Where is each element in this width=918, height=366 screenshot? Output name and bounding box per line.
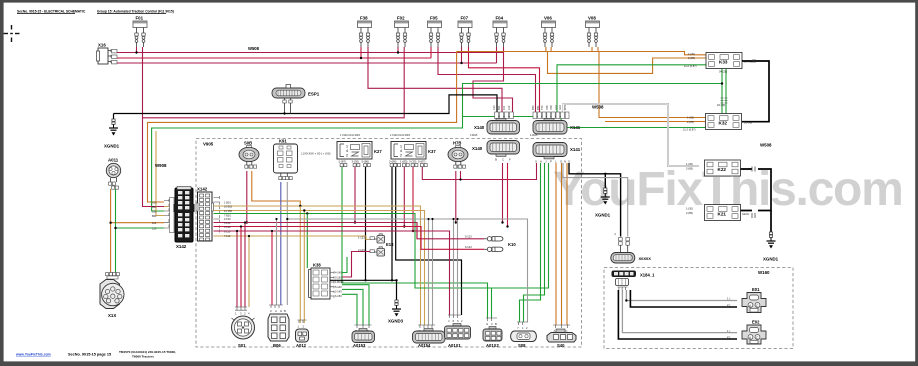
svg-text:2-(85): 2-(85) — [686, 211, 693, 215]
wire K38 black to XGND3 — [330, 280, 397, 300]
wire orange jog to K33 pin2 — [548, 52, 707, 74]
svg-text:E01: E01 — [752, 287, 760, 292]
svg-text:X184_1: X184_1 — [640, 273, 655, 278]
wire X141b green1 to S08 — [520, 163, 541, 322]
wire F07 right leg to X141 pin B — [469, 47, 540, 112]
node ESP1-gnd — [283, 112, 285, 114]
connector A0154 — [413, 325, 446, 348]
svg-text:1: 1 — [400, 145, 402, 149]
svg-text:1-(30): 1-(30) — [686, 207, 693, 211]
connector X16 — [97, 43, 118, 65]
relay K32 — [683, 114, 752, 132]
svg-text:X141: X141 — [570, 125, 581, 130]
svg-text:H: H — [280, 309, 282, 313]
node B06 gray — [275, 218, 277, 220]
svg-text:T50: T50 — [540, 105, 544, 110]
wire X141b green2 to S08 — [524, 163, 545, 322]
K27 pin labels — [339, 160, 370, 164]
connector X142 right half — [196, 187, 220, 242]
connector X140 bottom — [472, 141, 520, 157]
node F07-bus — [460, 62, 462, 64]
svg-text:1-(30): 1-(30) — [686, 162, 693, 166]
svg-text:4-140: 4-140 — [335, 271, 342, 275]
connector X142 left half — [164, 187, 195, 250]
svg-text:3-150: 3-150 — [335, 275, 342, 279]
svg-text:2-(85): 2-(85) — [687, 120, 694, 124]
wire F01 right leg down to bundle corner — [143, 47, 405, 118]
X142 left side wire id labels — [152, 200, 157, 230]
svg-text:K91: K91 — [279, 139, 287, 144]
lamp E02 — [742, 320, 766, 345]
wire X141b orange2 to S40 — [561, 163, 563, 325]
wire green X141-G branch — [463, 117, 562, 128]
sensor S0B — [239, 141, 259, 169]
svg-text:XGND1: XGND1 — [595, 213, 611, 218]
K37 pins — [390, 164, 427, 167]
svg-text:[ 1X0-X0X + X0 ] + (X0): [ 1X0-X0X + X0 ] + (X0) — [301, 152, 330, 156]
svg-text:K22: K22 — [718, 167, 727, 172]
svg-text:K37: K37 — [428, 149, 436, 154]
svg-text:1 (: 1 ( — [727, 297, 730, 301]
node A011 green — [114, 227, 116, 229]
mesh wire gray y219 — [287, 219, 527, 322]
wire W160 gray to E01 — [626, 290, 737, 301]
connector ESP1 — [272, 85, 320, 114]
wire K91 gray to B06 — [286, 182, 288, 305]
svg-text:2 (: 2 ( — [727, 303, 730, 307]
svg-text:2-(86): 2-(86) — [389, 160, 397, 164]
svg-text:XGND1: XGND1 — [104, 144, 120, 149]
svg-text:B50: B50 — [531, 105, 535, 110]
svg-text:1: 1 — [346, 145, 348, 149]
svg-text:1 X140-X141 9015: 1 X140-X141 9015 — [340, 134, 361, 137]
node F38-bus — [360, 57, 362, 59]
svg-text:W908: W908 — [155, 163, 167, 168]
svg-text:H7B: H7B — [453, 141, 461, 146]
svg-text:5-(87): 5-(87) — [418, 160, 426, 164]
frame right — [915, 0, 918, 366]
relay K27 — [337, 142, 382, 160]
svg-text:5-123: 5-123 — [465, 235, 472, 239]
mesh wire tan y210.5 to A0154 — [214, 211, 425, 326]
wire K37 black 1 to XGND3 join — [391, 167, 393, 280]
svg-text:2: 2 — [346, 154, 348, 158]
E01 wire labels — [727, 297, 730, 340]
svg-text:www.YouFixThis.com: www.YouFixThis.com — [15, 353, 51, 357]
K27 pins — [340, 164, 370, 167]
relay K91 — [274, 139, 298, 180]
svg-text:X141: X141 — [570, 147, 581, 152]
svg-text:G: G — [486, 322, 488, 326]
connector X140 top — [474, 119, 520, 135]
svg-text:1 B01: 1 B01 — [224, 200, 231, 204]
svg-text:A011: A011 — [108, 158, 119, 163]
node A011 orange — [109, 222, 111, 224]
wire B06 gray — [276, 219, 278, 305]
svg-text:1-(85): 1-(85) — [400, 160, 408, 164]
footer note — [119, 350, 176, 358]
svg-text:B06: B06 — [273, 343, 281, 348]
wire X141b black to XGND1 and A0X0X — [569, 163, 621, 237]
svg-text:A: A — [613, 233, 617, 235]
wire X141b green3 to A01X2 — [492, 163, 549, 318]
svg-text:X142: X142 — [176, 244, 187, 249]
fuse F02 — [395, 21, 409, 47]
svg-text:1-(30): 1-(30) — [688, 52, 695, 56]
wire X141b orange1 to S40 — [555, 163, 557, 325]
svg-text:B01: B01 — [152, 205, 157, 209]
wire green A011 to X1X with X142 branch — [116, 189, 165, 273]
svg-text:2-(85): 2-(85) — [688, 56, 695, 60]
lamp E01 — [742, 287, 766, 313]
wire orange K32 pin2 — [605, 121, 706, 123]
svg-text:A01X2: A01X2 — [486, 343, 499, 348]
mesh wire green y213.5 — [214, 214, 492, 289]
wire green K33 pin3 from X141 pin G — [557, 65, 706, 112]
svg-text:8 110: 8 110 — [224, 229, 231, 233]
pin header X140 top — [495, 112, 514, 119]
svg-text:150: 150 — [152, 210, 157, 214]
svg-text:B: B — [284, 309, 286, 313]
mesh wire tan y206 to A0154 — [164, 206, 421, 325]
wire E18b crimson to K38 — [342, 252, 370, 278]
svg-text:2 X140-X141 9015: 2 X140-X141 9015 — [390, 134, 411, 137]
connector A0153 — [352, 325, 375, 348]
svg-text:120: 120 — [507, 105, 511, 110]
svg-text:A01X1: A01X1 — [448, 343, 461, 348]
wire bus 3 crimson — [117, 62, 497, 64]
wire K33 right black loop to K32 — [742, 61, 769, 122]
wire W908 crimson to X142 — [143, 118, 165, 207]
node H7B — [455, 221, 457, 223]
svg-text:Group 15: Automated Traction C: Group 15: Automated Traction Control (F1… — [97, 9, 174, 13]
svg-text:1 (: 1 ( — [727, 329, 730, 333]
wire F07 left leg — [461, 47, 463, 63]
wire K37 crimson 2 — [412, 167, 414, 231]
svg-text:X1X: X1X — [108, 313, 116, 318]
wire K21 to ground — [770, 211, 772, 233]
node black split — [604, 173, 606, 175]
frame left — [0, 0, 4, 366]
wire K38 green3 to A0153 — [342, 294, 357, 325]
svg-text:XGND3: XGND3 — [388, 319, 404, 324]
pin wire ids X141 top — [531, 104, 567, 110]
svg-text:K38: K38 — [313, 263, 321, 268]
wire S01 b — [240, 227, 242, 308]
svg-text:11-2 (0.87): 11-2 (0.87) — [684, 64, 697, 68]
svg-text:F05: F05 — [430, 16, 438, 21]
node tan y206 — [299, 205, 301, 207]
wire crimson K10 feeds up — [417, 223, 421, 250]
svg-text:A0x0x: A0x0x — [742, 212, 750, 216]
pin letters X140 bottom — [495, 158, 511, 162]
relay K21 — [686, 205, 750, 221]
svg-text:F: F — [509, 158, 511, 162]
node tan y210.5 — [303, 209, 305, 211]
fuse F07 — [458, 21, 472, 47]
wire W508 bus top crimson — [117, 46, 503, 53]
fuse F04 — [493, 21, 507, 47]
svg-text:K33: K33 — [719, 60, 728, 65]
svg-text:10 B01: 10 B01 — [224, 205, 233, 209]
connector A012 — [296, 320, 309, 348]
wire end brackets K33 — [753, 59, 755, 63]
node B06 — [271, 230, 273, 232]
svg-text:N: N — [564, 160, 566, 164]
svg-text:9 150: 9 150 — [224, 217, 231, 221]
svg-text:X140: X140 — [472, 146, 483, 151]
svg-text:2 (: 2 ( — [727, 335, 730, 339]
svg-text:110: 110 — [502, 105, 506, 110]
wire X141b gray to A0X0X — [563, 163, 628, 237]
connector S08 — [511, 322, 537, 348]
svg-text:Y: Y — [517, 326, 519, 330]
dashed box W160 — [604, 268, 793, 349]
wire W160 gray to E02 — [622, 290, 737, 333]
svg-text:3 120: 3 120 — [224, 225, 231, 229]
svg-text:C: C — [270, 309, 272, 313]
relay K38 — [309, 263, 344, 300]
svg-text:B01: B01 — [152, 214, 157, 218]
svg-text:2-123: 2-123 — [358, 248, 365, 252]
ground XGND1 left — [104, 119, 120, 149]
fuse V06 — [542, 21, 556, 47]
ground XGND3 — [388, 300, 404, 324]
wire F02 left leg — [397, 47, 399, 53]
frame bottom — [0, 361, 918, 366]
wire orange A011 to X1X with X142 branch — [111, 189, 164, 273]
wire K38 green2 to A0153 — [342, 289, 363, 325]
connector A01X1 — [445, 315, 471, 348]
wire K27 green to A01X2 — [342, 167, 488, 318]
wire S0B orange — [252, 171, 300, 206]
svg-text:X140: X140 — [474, 125, 485, 130]
wire F05 right leg to X141 pin A — [438, 47, 536, 112]
svg-text:S08: S08 — [518, 343, 526, 348]
nodes gray — [286, 218, 458, 220]
svg-text:S0B: S0B — [244, 141, 252, 146]
svg-text:F07: F07 — [461, 16, 469, 21]
connector X141 top — [533, 119, 581, 135]
wire orange branch to X142 via W908 — [148, 52, 457, 203]
svg-text:A: A — [275, 309, 277, 313]
svg-text:S01: S01 — [238, 343, 246, 348]
mesh wire tan verticals to A012 — [300, 206, 304, 323]
svg-text:5-140: 5-140 — [335, 285, 342, 289]
svg-text:01 (40): 01 (40) — [744, 121, 752, 125]
connector X184_1 — [612, 271, 656, 291]
wire green K32 pin3 — [567, 127, 706, 129]
horn H7B — [448, 141, 468, 169]
svg-text:6-150: 6-150 — [335, 294, 342, 298]
K33 bottom pin labels — [717, 70, 727, 108]
mesh wire crimson y226.5 — [214, 227, 485, 250]
wire B06 crimson — [271, 231, 273, 305]
wire F04 left leg — [496, 47, 498, 63]
svg-text:B: B — [495, 322, 497, 326]
node F02-bus — [397, 51, 399, 53]
node XGND3 junction — [395, 279, 397, 281]
svg-text:F01: F01 — [136, 16, 144, 21]
pin header X141 top — [533, 112, 569, 119]
svg-text:110: 110 — [152, 221, 157, 225]
wire black XGND1 drop — [113, 114, 115, 120]
lamp E18a — [370, 234, 394, 247]
wire W508 screened — [564, 104, 700, 166]
svg-text:E18: E18 — [386, 242, 394, 247]
node K37 crimson2 — [412, 230, 414, 232]
node K27 crimson — [354, 221, 356, 223]
svg-text:3-(30): 3-(30) — [352, 160, 360, 164]
wire K38 green1 to A0153 — [342, 285, 369, 325]
diode K10b — [484, 247, 503, 251]
wire S0B crimson — [246, 171, 248, 223]
connector S01 — [232, 307, 255, 348]
wire F01 left leg — [136, 47, 138, 53]
svg-text:4: 4 — [400, 149, 402, 153]
mesh wire crimson y231 — [214, 231, 450, 315]
svg-text:11-2 (0.87): 11-2 (0.87) — [683, 128, 696, 132]
dashed box V905 — [196, 139, 582, 348]
diode K10a — [484, 237, 516, 247]
svg-text:A0154: A0154 — [418, 343, 431, 348]
wire F05 left leg — [430, 47, 432, 58]
svg-text:P: P — [550, 160, 552, 164]
pin wire ids X140 top — [492, 105, 511, 110]
wire K22 right to K21 black — [741, 169, 772, 211]
component A011 — [106, 158, 120, 190]
wire F38 right leg to X140 pin D — [368, 47, 502, 112]
svg-text:K32: K32 — [719, 121, 728, 126]
svg-text:W160: W160 — [758, 270, 770, 275]
frame top — [0, 0, 918, 3]
svg-text:7 110: 7 110 — [224, 234, 231, 238]
connector B06 — [268, 305, 289, 348]
svg-text:S40: S40 — [557, 343, 565, 348]
svg-text:2: 2 — [400, 154, 402, 158]
connector A0X0X oval — [611, 253, 651, 264]
mesh wire crimson y222.5 — [214, 223, 485, 239]
wire W160 black to E02 — [618, 290, 737, 339]
node H7B loop — [459, 178, 461, 180]
svg-text:5 110: 5 110 — [224, 221, 231, 225]
node green loop — [721, 82, 723, 84]
wire K27 black — [365, 167, 367, 280]
svg-text:4: 4 — [346, 149, 348, 153]
svg-text:G01: G01 — [554, 105, 558, 110]
svg-text:XGND1: XGND1 — [763, 257, 779, 262]
wire K37 black 2 to A01X1 — [396, 167, 462, 315]
wires S01 drops — [236, 231, 238, 307]
svg-text:SecNo. 9015-15 page 15: SecNo. 9015-15 page 15 — [68, 353, 111, 357]
mesh wire tan y236 to E18 — [214, 236, 370, 240]
header title left — [17, 9, 174, 13]
svg-text:A012: A012 — [296, 343, 307, 348]
node X140b c2 — [506, 225, 508, 227]
nodes S01 — [236, 221, 250, 237]
svg-text:1-123: 1-123 — [358, 236, 365, 240]
svg-text:X16: X16 — [98, 43, 106, 48]
svg-text:X10: X10 — [152, 200, 157, 204]
svg-text:A: A — [540, 160, 542, 164]
K37 pin labels — [389, 160, 426, 164]
wire W160 black to E01 — [630, 290, 737, 307]
svg-text:A0153: A0153 — [353, 343, 366, 348]
fuse F05 — [428, 21, 442, 47]
svg-text:3-(30): 3-(30) — [409, 160, 417, 164]
svg-text:K21: K21 — [718, 212, 727, 217]
K10 wire labels — [465, 235, 472, 250]
registration crosshair — [4, 25, 20, 42]
node W160 — [625, 299, 627, 301]
svg-text:G02: G02 — [558, 105, 562, 110]
svg-text:04 (20): 04 (20) — [719, 70, 727, 74]
svg-text:V06: V06 — [544, 16, 552, 21]
svg-text:V08: V08 — [588, 16, 596, 21]
svg-text:2-(85): 2-(85) — [686, 166, 693, 170]
mesh gray drops to A0154 and A01X1 — [429, 219, 458, 325]
svg-text:B: B — [495, 158, 497, 162]
svg-text:SecNo. 9015-15 - ELECTRICAL SC: SecNo. 9015-15 - ELECTRICAL SCHEMATIC — [17, 9, 86, 13]
svg-text:W508: W508 — [760, 143, 772, 148]
svg-text:K27: K27 — [374, 149, 382, 154]
relay K37 — [391, 142, 436, 160]
node K27 black — [364, 279, 366, 281]
node green K38 — [306, 212, 308, 214]
connector S40 — [547, 325, 576, 348]
wire F04 right leg to X140 pin F — [473, 47, 513, 112]
connector X1X round — [100, 273, 124, 319]
fuse F01 — [133, 21, 147, 47]
fuse V08 — [586, 21, 600, 47]
wire K38 green right jog — [342, 257, 347, 273]
wire orange V08 branch to K32 pin1 — [599, 52, 706, 118]
svg-text:2-140: 2-140 — [335, 290, 342, 294]
svg-text:ESP1: ESP1 — [308, 92, 320, 97]
node K37 crimson1 — [403, 225, 405, 227]
wire X140b crimson2 — [507, 163, 509, 227]
ground XGND1 mid — [595, 188, 611, 218]
svg-text:12 150: 12 150 — [224, 209, 232, 213]
relay K33 — [684, 52, 752, 69]
wire X141b orange3 to S40 — [566, 163, 568, 325]
relay K22 — [686, 160, 751, 176]
V905 boundary tick labels — [340, 134, 538, 137]
wire K37 crimson 1 — [403, 167, 405, 227]
fuse F38 — [358, 21, 372, 47]
connector marks green pair — [721, 98, 728, 103]
svg-text:X10: X10 — [492, 105, 496, 110]
wire K37 crimson 3 to H7B loop — [422, 163, 536, 180]
svg-text:X142: X142 — [197, 187, 208, 192]
ground XGND1 right — [763, 232, 779, 262]
svg-text:4 9015: 4 9015 — [530, 134, 538, 137]
svg-text:2-(87): 2-(87) — [339, 160, 347, 164]
wire black ESP1 ground run — [114, 95, 498, 114]
X142 right side wire id labels — [224, 200, 233, 238]
svg-text:W508: W508 — [248, 46, 260, 51]
wire green main loop K33-bottom to X142 — [152, 68, 726, 211]
svg-text:6-123: 6-123 — [465, 245, 472, 249]
svg-text:V06: V06 — [545, 105, 549, 110]
node F01-bus — [135, 51, 137, 53]
svg-text:3 9015: 3 9015 — [470, 134, 478, 137]
svg-text:F04: F04 — [496, 16, 504, 21]
wire F38 left leg — [360, 47, 362, 58]
svg-text:7 B01: 7 B01 — [224, 213, 231, 217]
wire K27 crimson — [354, 167, 356, 223]
wire W908 tan to X142 — [156, 131, 164, 216]
